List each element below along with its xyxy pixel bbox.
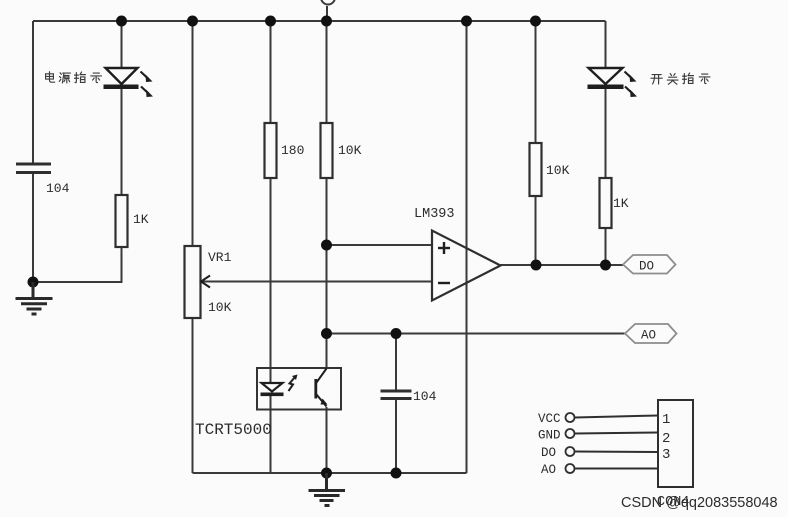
connector J1 body [658, 400, 693, 487]
capacitor C2 104 (middle) [381, 391, 412, 399]
node AO collector [321, 328, 332, 339]
resistor R5 10K (right) [530, 143, 542, 196]
svg-text:3: 3 [662, 447, 670, 463]
node R10K right top [530, 16, 541, 27]
wire VR1 top [192, 21, 194, 246]
glyph 关 [667, 74, 678, 85]
wire AO line [327, 333, 626, 335]
U2 light arrow (lightning) [289, 377, 296, 391]
wire left bottom [33, 281, 123, 283]
node R180 top [265, 16, 276, 27]
svg-text:180: 180 [281, 143, 304, 158]
wire top power rail [33, 20, 606, 22]
svg-text:AO: AO [541, 463, 556, 477]
pin circle VCC [566, 413, 575, 422]
svg-text:2: 2 [662, 431, 670, 447]
node AO cap [391, 328, 402, 339]
wire R180 to TCRT led [270, 178, 272, 384]
wire TCRT led cathode to ground rail [270, 396, 272, 473]
ground (center) [309, 473, 346, 506]
svg-text:104: 104 [46, 181, 70, 196]
ground (left) [16, 282, 53, 314]
wire pin VCC [575, 416, 658, 418]
wire cap2 bottom [395, 399, 397, 473]
svg-text:DO: DO [541, 446, 556, 460]
pin circle AO [566, 464, 575, 473]
node LED1 top [116, 16, 127, 27]
glyph 指 [75, 72, 86, 83]
wire R1K right bottom [605, 228, 607, 265]
glyph 示 [91, 73, 102, 82]
wire R180 top [270, 21, 272, 123]
op-amp U1 LM393 [432, 231, 501, 301]
potentiometer VR1 body [185, 246, 201, 318]
wire pin GND [575, 433, 658, 434]
TCRT5000 sensor U2 box [257, 368, 341, 410]
wire comparator output to DO [501, 264, 624, 266]
wire LED2 cathode to R1K right [605, 88, 607, 178]
LED D1 power indicator [104, 68, 154, 97]
svg-text:VR1: VR1 [208, 250, 232, 265]
node VR1 top [187, 16, 198, 27]
wire bottom ground rail [193, 472, 467, 474]
wire left rail lower [32, 173, 34, 282]
label 电源指示 (power indicator) drawn glyphs [46, 72, 102, 83]
wire left rail upper [32, 21, 34, 164]
VR1 wiper arrow [201, 276, 210, 288]
resistor R2 1K (left) [116, 195, 128, 247]
svg-text:AO: AO [641, 329, 656, 343]
glyph 电 [46, 72, 55, 82]
svg-text:1K: 1K [613, 196, 629, 211]
wire LED1 cathode to R1K [121, 88, 123, 196]
port AO hexagon [625, 324, 677, 343]
node VCC rail center [321, 16, 332, 27]
wire R10K right bottom [535, 196, 537, 265]
wire VR1 bottom [192, 318, 194, 473]
node ground rail emitter [321, 468, 332, 479]
U2 internal IR LED [261, 383, 284, 396]
wire R10K mid top [326, 21, 328, 123]
label 开关指示 (switch indicator) drawn glyphs [651, 73, 710, 84]
resistor R3 180 [265, 123, 277, 178]
wire TCRT emitter to ground rail [326, 407, 328, 473]
connector J1 pins [566, 413, 659, 473]
svg-text:DO: DO [639, 260, 654, 274]
wire LED2 anode [605, 21, 607, 68]
svg-text:LM393: LM393 [414, 207, 455, 222]
LED D2 switch indicator [588, 68, 638, 97]
wire R10K right top [535, 21, 537, 143]
glyph 开 [651, 75, 662, 84]
node LM393 power top [461, 16, 472, 27]
pin circle DO [566, 447, 575, 456]
svg-text:1K: 1K [133, 212, 149, 227]
wire LED1 anode [121, 21, 123, 68]
svg-text:GND: GND [538, 429, 561, 443]
U2 phototransistor [316, 369, 327, 407]
svg-text:104: 104 [413, 389, 437, 404]
svg-text:1: 1 [662, 412, 670, 428]
wire minus input from VR1 wiper [201, 281, 433, 283]
capacitor C1 104 (left) [16, 164, 51, 173]
svg-text:CSDN @qq2083558048: CSDN @qq2083558048 [621, 495, 778, 511]
svg-text:10K: 10K [546, 163, 570, 178]
node DO output [531, 260, 542, 271]
svg-text:TCRT5000: TCRT5000 [195, 421, 272, 439]
node plus input [321, 240, 332, 251]
glyph 源 [59, 73, 70, 83]
VCC terminal circle [321, 0, 335, 5]
svg-text:10K: 10K [338, 143, 362, 158]
node left ground junction [28, 277, 39, 288]
wire VCC stub [326, 6, 328, 21]
pin circle GND [566, 429, 575, 438]
node ground rail cap [391, 468, 402, 479]
wire R1K bottom [121, 247, 123, 282]
resistor R6 1K (right) [600, 178, 612, 228]
glyph 示 [699, 74, 710, 83]
resistor R4 10K (middle) [321, 123, 333, 178]
wire LM393 power column [466, 21, 468, 473]
svg-text:VCC: VCC [538, 412, 561, 426]
svg-text:10K: 10K [208, 300, 232, 315]
port DO hexagon [623, 255, 676, 274]
wire pin DO [575, 451, 658, 454]
wire cap2 top [395, 334, 397, 391]
node DO at R1K [600, 260, 611, 271]
glyph 指 [683, 73, 694, 84]
wire R10K mid to collector node [326, 178, 328, 368]
wire pin AO [575, 468, 658, 470]
wire plus input [327, 244, 433, 246]
